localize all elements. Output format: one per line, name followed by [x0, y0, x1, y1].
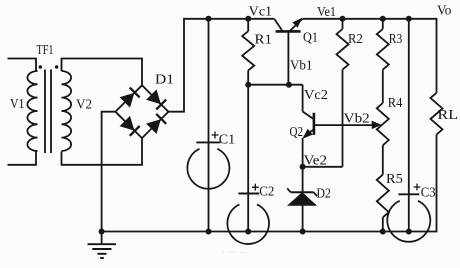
- wire node Ve2 to R2 bottom: [303, 166, 343, 168]
- svg-text:Ve2: Ve2: [304, 153, 327, 168]
- svg-text:RL: RL: [438, 108, 459, 123]
- svg-text:R3: R3: [389, 32, 403, 47]
- svg-text:R2: R2: [348, 32, 363, 47]
- svg-text:Q1: Q1: [303, 31, 318, 46]
- wire top rail Ve1 to Vo: [302, 19, 436, 93]
- phase dot secondary: [55, 65, 58, 68]
- transformer TF1 primary winding V1: [27, 71, 37, 151]
- svg-text:. .... ...: . .... ...: [222, 245, 247, 256]
- svg-text:R1: R1: [255, 33, 273, 48]
- bridge rectifier D1 diamond: [115, 85, 168, 138]
- diode D1a top-left: [120, 88, 139, 107]
- wire node Vb1 horizontal: [248, 84, 302, 86]
- svg-text:D1: D1: [155, 73, 174, 88]
- svg-text:Vb2: Vb2: [344, 112, 370, 127]
- svg-text:V2: V2: [76, 98, 92, 113]
- diode D1b top-right: [147, 90, 166, 109]
- transistor Q1: [275, 19, 303, 85]
- wire Q2 base to R4 wiper: [315, 124, 373, 126]
- svg-text:Vo: Vo: [437, 4, 451, 19]
- resistor R5: [377, 175, 389, 232]
- svg-text:TF1: TF1: [37, 43, 54, 58]
- wire Vc2 vertical: [302, 85, 304, 112]
- resistor R2: [337, 19, 349, 167]
- svg-text:C1: C1: [219, 133, 235, 148]
- svg-text:Ve1: Ve1: [317, 5, 336, 20]
- phase dot primary: [39, 65, 42, 68]
- svg-text:Vc1: Vc1: [249, 5, 272, 20]
- svg-text:V1: V1: [10, 97, 25, 112]
- wire bridge positive to top rail Vc1: [168, 19, 274, 112]
- wire bridge negative to ground rail: [102, 112, 116, 232]
- resistor R1: [242, 19, 254, 85]
- wiper arrowhead: [372, 121, 380, 128]
- capacitor C2: [227, 184, 269, 244]
- svg-text:R4: R4: [388, 96, 403, 111]
- transformer TF1 secondary winding V2: [62, 71, 72, 151]
- diode D1d bottom-right: [147, 114, 166, 133]
- wire primary bottom lead: [8, 152, 37, 165]
- resistor RL: [431, 93, 443, 135]
- svg-text:C2: C2: [259, 184, 274, 199]
- svg-text:R5: R5: [386, 172, 403, 187]
- wire bottom ground rail: [102, 135, 437, 232]
- wire primary top lead: [8, 59, 37, 72]
- svg-text:Q2: Q2: [290, 125, 304, 140]
- ground: [88, 232, 117, 259]
- transformer core: [45, 70, 51, 154]
- capacitor C3: [387, 19, 430, 242]
- zener diode D2: [287, 167, 317, 232]
- svg-text:Vb1: Vb1: [290, 59, 313, 74]
- wire secondary bottom lead to bridge bottom: [62, 138, 143, 165]
- transistor Q2: [303, 112, 314, 167]
- svg-text:D2: D2: [317, 186, 331, 201]
- potentiometer R4: [377, 103, 389, 175]
- wire secondary top lead to bridge top: [62, 59, 143, 86]
- svg-text:C3: C3: [421, 185, 436, 200]
- resistor R3: [377, 19, 389, 103]
- capacitor C1: [187, 19, 229, 232]
- diode D1c bottom-left: [120, 116, 139, 135]
- wire R1 bottom to C2: [247, 85, 249, 194]
- svg-text:Vc2: Vc2: [304, 88, 328, 103]
